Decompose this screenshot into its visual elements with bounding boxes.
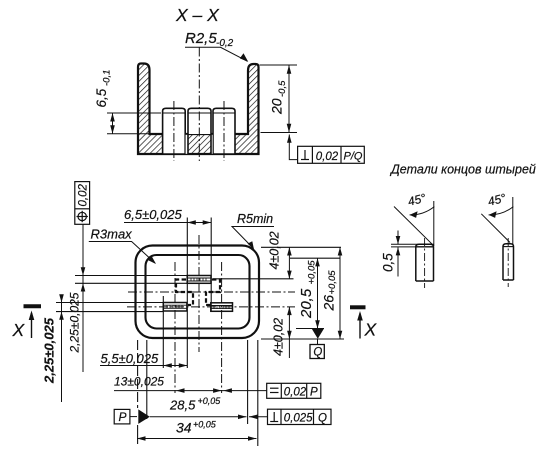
svg-text:2,25±0,025: 2,25±0,025 xyxy=(42,317,57,384)
svg-text:0,02: 0,02 xyxy=(77,184,89,207)
svg-text:13±0,025: 13±0,025 xyxy=(114,375,164,389)
svg-text:P: P xyxy=(119,410,127,424)
svg-text:5,5±0,025: 5,5±0,025 xyxy=(101,351,160,366)
svg-text:X: X xyxy=(364,320,378,340)
svg-text:-0,1: -0,1 xyxy=(102,70,113,86)
svg-text:P/Q: P/Q xyxy=(344,151,363,163)
svg-text:Детали концов штырей: Детали концов штырей xyxy=(389,163,536,177)
svg-text:+0,05: +0,05 xyxy=(327,270,338,295)
svg-text:28,5: 28,5 xyxy=(169,398,196,413)
svg-text:20: 20 xyxy=(269,98,285,115)
svg-text:6,5±0,025: 6,5±0,025 xyxy=(124,207,183,222)
svg-text:+0,05: +0,05 xyxy=(307,260,318,285)
svg-text:+0,05: +0,05 xyxy=(193,420,217,430)
svg-text:Q: Q xyxy=(313,347,322,359)
svg-text:-0,5: -0,5 xyxy=(277,80,288,97)
svg-text:R3max: R3max xyxy=(91,227,133,242)
svg-text:P: P xyxy=(310,386,318,398)
svg-text:+0,05: +0,05 xyxy=(198,396,222,406)
svg-text:R2,5: R2,5 xyxy=(185,30,217,47)
svg-text:6,5: 6,5 xyxy=(94,88,109,107)
svg-text:4±0,02: 4±0,02 xyxy=(271,318,285,356)
svg-text:0,025: 0,025 xyxy=(284,412,313,424)
svg-text:34: 34 xyxy=(176,420,192,436)
svg-text:26: 26 xyxy=(321,295,337,312)
svg-text:0,02: 0,02 xyxy=(284,386,307,398)
svg-text:X: X xyxy=(12,320,26,340)
svg-text:0,5: 0,5 xyxy=(381,253,396,272)
svg-text:R5min: R5min xyxy=(237,212,273,226)
svg-text:2,25±0,025: 2,25±0,025 xyxy=(68,292,82,353)
svg-text:0,02: 0,02 xyxy=(316,151,339,163)
svg-text:4±0,02: 4±0,02 xyxy=(267,231,281,269)
svg-text:-0,2: -0,2 xyxy=(216,38,234,49)
svg-text:Q: Q xyxy=(318,412,327,424)
svg-text:X – X: X – X xyxy=(175,5,220,25)
svg-text:20,5: 20,5 xyxy=(298,288,315,319)
